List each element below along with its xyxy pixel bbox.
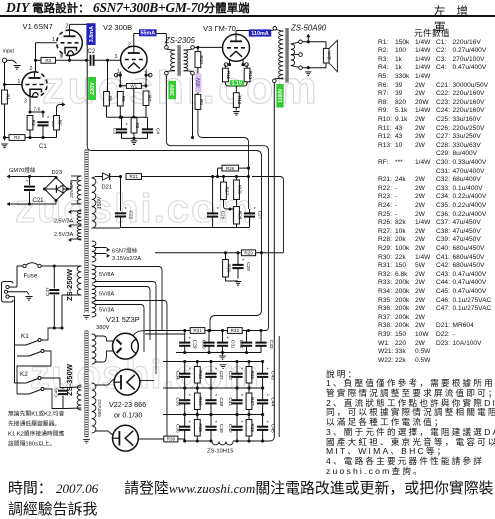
svg-text:R26: R26 bbox=[226, 166, 235, 171]
svg-text:R10: R10 bbox=[199, 55, 204, 64]
svg-text:-95V: -95V bbox=[196, 77, 202, 88]
wire plate V3 bbox=[235, 31, 237, 35]
wire bbox=[29, 97, 31, 112]
winding 5V/8A bbox=[92, 265, 96, 283]
wire bbox=[9, 296, 14, 298]
svg-text:*: * bbox=[189, 394, 191, 400]
svg-text:C2: C2 bbox=[88, 49, 96, 55]
interstage transformer ZS-2305 bbox=[165, 46, 169, 50]
resistor R30 bbox=[223, 260, 229, 278]
svg-text:R39: R39 bbox=[167, 437, 176, 442]
speaker LS1 bbox=[323, 48, 329, 63]
rectifier tube V22 bbox=[114, 369, 140, 395]
winding ZS-250W primary bbox=[77, 266, 81, 295]
wire bbox=[222, 331, 224, 343]
wire bbox=[212, 217, 214, 228]
wire to speaker - bbox=[302, 67, 326, 69]
resistor RF bbox=[54, 116, 60, 131]
svg-text:C30: C30 bbox=[201, 340, 207, 349]
wire bbox=[262, 415, 264, 427]
current label 3.8mA bbox=[86, 23, 95, 45]
svg-text:Fuse: Fuse bbox=[24, 273, 38, 280]
svg-text:*: * bbox=[267, 421, 269, 427]
resistor R38 bbox=[246, 420, 252, 437]
capacitor C31 bbox=[217, 342, 228, 344]
svg-text:R29: R29 bbox=[244, 251, 253, 256]
wire bbox=[165, 34, 167, 46]
wire bbox=[147, 117, 149, 129]
component value list C column bbox=[0, 0, 1, 1]
wire bbox=[248, 415, 250, 420]
svg-text:V2 300B: V2 300B bbox=[103, 23, 132, 32]
svg-text:*: * bbox=[47, 116, 49, 122]
winding 5V/8A second bbox=[92, 285, 96, 302]
svg-text:*: * bbox=[241, 421, 243, 427]
svg-text:R3: R3 bbox=[31, 120, 36, 126]
wire bbox=[94, 59, 121, 61]
wire bbox=[106, 106, 108, 117]
resistor R4 bbox=[41, 57, 56, 63]
wire bbox=[8, 291, 27, 293]
resistor R3 bbox=[27, 116, 33, 131]
svg-text:C21: C21 bbox=[33, 198, 45, 204]
svg-text:*: * bbox=[189, 336, 191, 342]
svg-text:該間隔180s以上。: 該間隔180s以上。 bbox=[8, 440, 55, 448]
svg-text:ZS-250W: ZS-250W bbox=[65, 268, 74, 301]
svg-text:C45: C45 bbox=[270, 424, 276, 433]
wire bbox=[223, 177, 225, 183]
title bbox=[6, 0, 250, 16]
svg-text:7-8: 7-8 bbox=[34, 107, 41, 112]
ground bbox=[233, 111, 240, 113]
wire bbox=[236, 362, 238, 374]
svg-text:*: * bbox=[267, 368, 269, 374]
svg-text:R11: R11 bbox=[226, 71, 231, 80]
wire bbox=[248, 362, 250, 367]
capacitor C34 bbox=[179, 373, 190, 375]
svg-text:or 0.1/30: or 0.1/30 bbox=[114, 411, 142, 420]
winding 380V bbox=[92, 334, 96, 364]
wire bbox=[223, 200, 225, 207]
filament leads V2 bbox=[119, 72, 121, 88]
bottom caption bbox=[8, 477, 495, 519]
wire rail bottom bbox=[185, 440, 212, 442]
wire plate V1a bbox=[69, 24, 71, 30]
svg-text:*: * bbox=[215, 394, 217, 400]
fuse F1 bbox=[17, 265, 23, 267]
wire bbox=[41, 328, 54, 340]
wire bbox=[197, 68, 199, 74]
wire to speaker + bbox=[302, 41, 326, 43]
svg-text:*: * bbox=[242, 259, 244, 265]
wire rail bbox=[163, 387, 263, 389]
svg-text:R35: R35 bbox=[198, 424, 203, 433]
current label 55mA bbox=[139, 29, 157, 36]
svg-text:R21: R21 bbox=[130, 174, 139, 179]
wire bbox=[86, 24, 88, 146]
wire bbox=[30, 137, 57, 139]
wire ZS-250W primary bottom bbox=[62, 294, 81, 296]
wire bbox=[95, 336, 114, 341]
rectifier tube V23 bbox=[113, 425, 139, 451]
wire bbox=[56, 59, 89, 61]
svg-text:*: * bbox=[215, 421, 217, 427]
resistor R28 bbox=[234, 207, 240, 225]
wire bbox=[184, 388, 186, 400]
svg-text:V3 ГM-70: V3 ГM-70 bbox=[203, 24, 236, 33]
resistor R11 bbox=[223, 68, 229, 82]
wire bbox=[54, 327, 62, 329]
svg-text:C3: C3 bbox=[111, 128, 117, 134]
capacitor C33 bbox=[255, 342, 266, 344]
wire bbox=[236, 388, 238, 400]
wire bbox=[217, 168, 219, 176]
wire bbox=[42, 125, 44, 137]
resistor R31 bbox=[190, 328, 205, 334]
wire bbox=[17, 362, 51, 394]
resistor R34 bbox=[194, 393, 200, 410]
svg-text:C38: C38 bbox=[218, 397, 224, 406]
svg-text:2.5V/3A: 2.5V/3A bbox=[54, 232, 74, 238]
ground bbox=[305, 71, 311, 73]
resistor R32 bbox=[227, 328, 242, 334]
svg-text:R1: R1 bbox=[5, 94, 10, 100]
resistor R9 bbox=[195, 94, 201, 109]
wire bbox=[29, 177, 31, 186]
ground bbox=[26, 296, 33, 298]
svg-text:C33: C33 bbox=[268, 340, 274, 349]
wire bbox=[36, 59, 42, 61]
phase arrow bbox=[307, 37, 309, 42]
svg-text:K2: K2 bbox=[20, 371, 28, 378]
wire bbox=[210, 362, 212, 374]
wire bbox=[236, 82, 247, 86]
svg-text:1: 1 bbox=[52, 37, 55, 43]
svg-text:C42: C42 bbox=[227, 424, 233, 433]
ground bbox=[1, 143, 8, 145]
wire bbox=[125, 331, 145, 334]
wire bbox=[120, 217, 122, 228]
resistor R7 bbox=[143, 91, 149, 106]
resistor R37 bbox=[246, 393, 252, 410]
svg-text:K1: K1 bbox=[21, 333, 29, 340]
voltage label 220V bbox=[88, 77, 96, 100]
capacitor C1 bbox=[37, 121, 48, 123]
resistor R2 bbox=[9, 135, 25, 141]
heater wire with arrow bbox=[8, 176, 30, 178]
wire bbox=[95, 431, 113, 435]
resistor R8 bbox=[131, 118, 137, 133]
svg-text:K1 K2順序接通時間應: K1 K2順序接通時間應 bbox=[8, 430, 65, 438]
wire 1100V to bank bbox=[263, 437, 275, 442]
ground bbox=[219, 355, 226, 357]
svg-text:zuoshi.com: zuoshi.com bbox=[15, 187, 255, 231]
ground bbox=[83, 439, 90, 441]
svg-text:R27: R27 bbox=[224, 186, 229, 195]
svg-text:C44: C44 bbox=[270, 397, 276, 406]
wire cathode V1a bbox=[69, 56, 71, 61]
capacitor C4 bbox=[142, 128, 153, 130]
svg-text:C41: C41 bbox=[227, 397, 233, 406]
svg-text:ZS-50A90: ZS-50A90 bbox=[290, 24, 327, 33]
capacitor C28 bbox=[232, 264, 243, 266]
svg-text:2.5V/3A: 2.5V/3A bbox=[54, 219, 74, 225]
svg-text:C29: C29 bbox=[192, 340, 198, 349]
svg-text:1.1V: 1.1V bbox=[232, 81, 243, 87]
ground bbox=[14, 65, 21, 67]
wire rail bbox=[163, 414, 263, 416]
wire bbox=[29, 130, 31, 138]
svg-text:R6: R6 bbox=[121, 96, 126, 102]
svg-text:ZS-10H15: ZS-10H15 bbox=[207, 449, 233, 455]
svg-text:*: * bbox=[215, 368, 217, 374]
capacitor C42 bbox=[231, 426, 242, 428]
svg-text:C43: C43 bbox=[270, 371, 276, 380]
wiper wire bbox=[133, 88, 135, 117]
svg-text:D23: D23 bbox=[52, 170, 63, 176]
wire bbox=[218, 167, 223, 169]
triode V2 300B bbox=[121, 46, 147, 72]
wire bbox=[42, 112, 44, 117]
wire bbox=[121, 117, 123, 129]
winding 20V/4A bbox=[77, 176, 81, 204]
svg-text:6SN7燈絲: 6SN7燈絲 bbox=[112, 246, 138, 254]
resistor R21 bbox=[126, 174, 142, 180]
svg-text:C39: C39 bbox=[218, 424, 224, 433]
wire bbox=[184, 415, 186, 427]
svg-text:C32: C32 bbox=[238, 340, 244, 349]
svg-text:C28: C28 bbox=[245, 262, 251, 271]
rectifier tube V21 bbox=[113, 333, 139, 359]
AC inlet plug bbox=[2, 282, 14, 303]
svg-text:2: 2 bbox=[66, 24, 69, 30]
wire bbox=[35, 60, 37, 72]
wire bbox=[5, 137, 10, 139]
resistor R27 bbox=[221, 182, 227, 200]
current label 110mA bbox=[249, 29, 271, 36]
svg-text:R32: R32 bbox=[231, 328, 240, 333]
resistor R26 bbox=[222, 165, 239, 171]
svg-text:*: * bbox=[126, 123, 128, 129]
svg-text:C35: C35 bbox=[175, 397, 181, 406]
svg-text:150V: 150V bbox=[97, 196, 103, 209]
winding 2.5V/3A x2 bbox=[77, 210, 81, 224]
title underline bbox=[0, 15, 495, 17]
winding 150V bbox=[92, 178, 96, 228]
wire loop bbox=[95, 305, 145, 353]
capacitor C21 bbox=[24, 186, 35, 188]
wire bbox=[249, 209, 251, 213]
capacitor C38 bbox=[205, 399, 216, 401]
svg-text:R13: R13 bbox=[237, 96, 242, 105]
svg-text:R33: R33 bbox=[198, 371, 203, 380]
svg-text:W21: W21 bbox=[237, 185, 242, 195]
wire bias rail bbox=[198, 109, 249, 209]
wire bbox=[95, 351, 114, 362]
svg-text:2: 2 bbox=[30, 66, 33, 72]
wire bbox=[53, 266, 55, 288]
wire bbox=[194, 46, 222, 48]
triode V1b (6SN7 lower half) bbox=[22, 72, 47, 97]
resistor R10 bbox=[195, 52, 201, 68]
svg-text:380V: 380V bbox=[96, 325, 110, 331]
capacitor C44 bbox=[257, 399, 268, 401]
wire bbox=[225, 82, 236, 86]
svg-text:R28: R28 bbox=[237, 211, 242, 220]
wire bbox=[95, 379, 114, 385]
wire bbox=[196, 362, 198, 367]
wire bbox=[196, 415, 198, 420]
wire bbox=[184, 362, 186, 374]
svg-text:R4: R4 bbox=[45, 58, 51, 63]
wire bbox=[25, 137, 30, 139]
wire bbox=[44, 389, 66, 409]
voltage label 1.1V bbox=[230, 80, 244, 86]
winding 3.15V bbox=[92, 241, 96, 262]
wire bbox=[142, 176, 249, 178]
svg-text:R36: R36 bbox=[250, 371, 255, 380]
wire bbox=[236, 224, 238, 228]
capacitor C36 bbox=[179, 426, 190, 428]
wire grid leak bbox=[107, 60, 109, 91]
wire plate V2 bbox=[133, 34, 135, 47]
wire loop bbox=[95, 287, 151, 341]
svg-text:220V: 220V bbox=[90, 82, 96, 95]
wire bbox=[120, 177, 122, 211]
svg-text:3: 3 bbox=[115, 54, 118, 60]
secondary winding bbox=[291, 44, 295, 66]
capacitor C46 bbox=[58, 390, 68, 392]
svg-text:RF: RF bbox=[57, 120, 62, 126]
wire feedback with arrow bbox=[57, 105, 63, 116]
potentiometer W1 bbox=[126, 84, 141, 89]
filament leads V3 bbox=[229, 60, 231, 65]
capacitor C26 bbox=[207, 212, 218, 214]
svg-text:C22: C22 bbox=[128, 210, 134, 219]
capacitor C43 bbox=[257, 373, 268, 375]
wire 390V rail bbox=[166, 75, 268, 331]
wire bbox=[237, 253, 239, 265]
svg-text:C26: C26 bbox=[220, 211, 226, 220]
svg-text:5V/8A: 5V/8A bbox=[99, 292, 115, 298]
svg-text:C1: C1 bbox=[39, 144, 47, 150]
resistor R1 bbox=[2, 90, 8, 104]
svg-text:V22-23 866: V22-23 866 bbox=[109, 400, 146, 409]
capacitor C3 bbox=[116, 128, 127, 130]
svg-text:20V/4A: 20V/4A bbox=[69, 181, 75, 198]
svg-text:*: * bbox=[227, 336, 229, 342]
wire bbox=[16, 351, 18, 356]
wire bbox=[236, 177, 238, 181]
svg-text:R2: R2 bbox=[14, 135, 20, 140]
svg-text:55mA: 55mA bbox=[140, 31, 155, 37]
resistor R36 bbox=[246, 367, 252, 384]
wire bbox=[140, 380, 150, 382]
capacitor C41 bbox=[231, 399, 242, 401]
svg-text:input: input bbox=[3, 49, 14, 55]
voltage label -95V bbox=[195, 74, 201, 93]
heater wire with arrow bbox=[8, 203, 30, 205]
svg-text:390V: 390V bbox=[170, 84, 176, 96]
svg-text:W1: W1 bbox=[130, 84, 137, 89]
capacitor C35 bbox=[179, 399, 190, 401]
wire bbox=[196, 388, 198, 393]
wire bias vertical pair bbox=[283, 177, 285, 253]
wire bbox=[160, 361, 163, 363]
resistor R35 bbox=[194, 420, 200, 437]
svg-text:R7: R7 bbox=[147, 95, 152, 101]
svg-text:*: * bbox=[241, 368, 243, 374]
ground bbox=[83, 315, 90, 317]
wire bbox=[210, 415, 212, 427]
component value list R column bbox=[0, 0, 1, 1]
wire bbox=[41, 265, 81, 267]
svg-text:3.15Vx2/2A: 3.15Vx2/2A bbox=[112, 256, 141, 262]
svg-text:無論先開K1或K2,均會: 無論先開K1或K2,均會 bbox=[8, 410, 65, 418]
notes block bbox=[326, 370, 495, 477]
svg-text:3: 3 bbox=[60, 53, 63, 59]
wire bbox=[246, 65, 248, 69]
svg-text:C37: C37 bbox=[218, 371, 224, 380]
wire bbox=[56, 130, 58, 138]
capacitor C40 bbox=[231, 373, 242, 375]
wire bbox=[133, 133, 135, 138]
svg-text:C31: C31 bbox=[230, 340, 236, 349]
core ZS-250W bbox=[85, 150, 89, 311]
svg-text:110mA: 110mA bbox=[251, 31, 268, 37]
winding 5V/3A bbox=[92, 303, 96, 317]
svg-text:*: * bbox=[241, 394, 243, 400]
wire grid V1a bbox=[36, 42, 57, 44]
svg-text:R5: R5 bbox=[107, 96, 112, 102]
svg-text:*: * bbox=[267, 394, 269, 400]
resistor R5 bbox=[104, 92, 110, 107]
wire bbox=[9, 286, 17, 288]
wire bbox=[325, 42, 327, 49]
svg-text:5V/3A: 5V/3A bbox=[99, 308, 115, 314]
svg-text:ZS-2305: ZS-2305 bbox=[164, 36, 196, 45]
choke ZS-10H15 bbox=[212, 442, 233, 445]
wire bbox=[41, 378, 66, 388]
svg-text:C36: C36 bbox=[175, 424, 181, 433]
wire 1100V lead bbox=[273, 83, 275, 437]
capacitor C45 bbox=[257, 426, 268, 428]
svg-text:GM70燈絲: GM70燈絲 bbox=[9, 166, 36, 174]
svg-text:R8: R8 bbox=[135, 122, 140, 128]
svg-text:R34: R34 bbox=[198, 397, 203, 406]
wire bbox=[92, 227, 95, 229]
svg-text:先接通低壓變壓器。: 先接通低壓變壓器。 bbox=[8, 420, 60, 428]
svg-text:C4: C4 bbox=[155, 128, 161, 134]
svg-text:1100V: 1100V bbox=[278, 88, 284, 103]
wire bbox=[224, 65, 226, 69]
triode V1a (6SN7 upper half) bbox=[57, 30, 83, 56]
wire bbox=[236, 415, 238, 427]
svg-text:*: * bbox=[217, 207, 219, 213]
wire bbox=[4, 85, 6, 91]
wire bbox=[235, 86, 237, 93]
wire bbox=[246, 331, 248, 343]
author name bbox=[434, 3, 495, 35]
wire bbox=[155, 252, 284, 254]
resistor R12 bbox=[244, 68, 250, 82]
wire bbox=[68, 181, 78, 189]
wire bbox=[138, 440, 164, 442]
ground bbox=[220, 364, 227, 366]
capacitor C37 bbox=[205, 373, 216, 375]
potentiometer W21 bbox=[234, 180, 240, 200]
input jack J1 bbox=[2, 58, 6, 62]
